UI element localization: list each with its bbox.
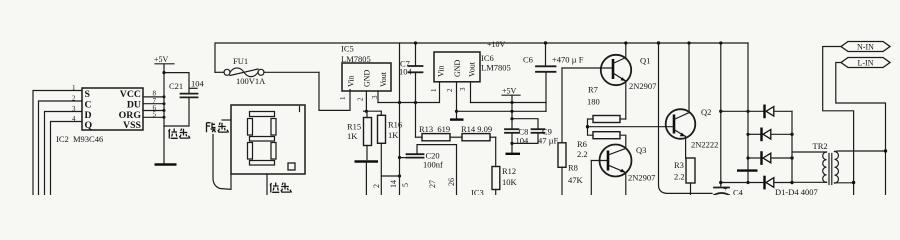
svg-text:+10V: +10V	[487, 40, 506, 49]
svg-text:26: 26	[447, 178, 456, 186]
svg-text:3: 3	[459, 87, 467, 91]
capacitor C7 104	[399, 41, 423, 137]
svg-text:GND: GND	[453, 59, 462, 77]
svg-text:LM7805: LM7805	[481, 63, 511, 73]
label +10V on rail	[487, 40, 506, 49]
svg-text:R3: R3	[674, 160, 684, 170]
wire IC5 GND pin2 down	[364, 91, 382, 113]
wire L-IN to transformer	[836, 63, 887, 196]
svg-text:C: C	[85, 100, 92, 111]
wire base rail to Q2	[586, 125, 674, 128]
svg-text:3: 3	[72, 105, 76, 113]
label duanxuan (segment select) left	[207, 123, 229, 133]
transistor Q3 2N2907	[591, 145, 655, 196]
label weixuan (bit select) under display	[270, 183, 292, 193]
regulator IC5 LM7805	[339, 44, 391, 102]
svg-text:C21: C21	[169, 81, 183, 91]
capacitor C8 104	[505, 103, 529, 153]
label weixuan (bit select) left	[169, 129, 191, 139]
svg-text:C4: C4	[733, 188, 744, 196]
wire C4 / Q2 collector column	[719, 41, 722, 186]
svg-text:Vout: Vout	[379, 71, 388, 87]
resistor R3 2.2	[674, 158, 695, 195]
svg-text:1: 1	[430, 88, 438, 92]
pin 26 label	[447, 178, 456, 186]
ground below bit-select line	[155, 163, 177, 165]
svg-text:R13 619: R13 619	[419, 124, 450, 134]
wire IC2 pin6 ORG stub	[143, 104, 166, 112]
capacitor C6 +470uF	[523, 41, 584, 111]
connector flag L-IN	[841, 58, 890, 68]
wire segment-select feed around display	[213, 135, 231, 190]
ground under IC6	[450, 118, 464, 120]
diode D2	[748, 128, 794, 142]
svg-text:IC5: IC5	[341, 44, 354, 54]
svg-text:R6: R6	[577, 139, 587, 149]
wire N-IN to transformer	[823, 47, 856, 196]
wire fuse to IC5 Vin pin1	[319, 72, 350, 110]
diode D1	[721, 105, 792, 119]
capacitor C20 100nf	[400, 145, 457, 195]
wire rail drop to bottom edge near C4	[657, 41, 712, 193]
wire bridge right column	[791, 111, 793, 182]
svg-text:2: 2	[372, 184, 381, 188]
svg-text:5: 5	[401, 183, 410, 187]
svg-text:4: 4	[72, 115, 76, 123]
resistor R12 10K	[492, 137, 518, 195]
wire rail2 C6 bottom to IC6 gnd node	[457, 110, 547, 112]
svg-text:2.2: 2.2	[577, 149, 588, 159]
connector flag N-IN	[841, 42, 890, 52]
svg-text:+5V: +5V	[502, 87, 517, 96]
resistor R14 9.09	[461, 124, 496, 141]
wire IC2 pin7 DU stub	[143, 97, 166, 105]
7-segment display module	[231, 105, 305, 174]
node +5V left rail	[154, 55, 174, 164]
pin 5 label	[401, 183, 410, 187]
svg-text:104: 104	[191, 79, 205, 89]
resistor R15 1K	[347, 111, 372, 159]
svg-text:2N2907: 2N2907	[629, 81, 656, 91]
svg-text:47 µF: 47 µF	[538, 136, 559, 146]
svg-text:IC2 M93C46: IC2 M93C46	[56, 134, 103, 144]
svg-text:1K: 1K	[388, 130, 399, 140]
diode D4	[721, 176, 794, 190]
capacitor C9 47uF	[512, 119, 559, 146]
svg-text:180: 180	[587, 97, 600, 107]
svg-text:L-IN: L-IN	[858, 59, 874, 68]
svg-text:VCC: VCC	[120, 89, 141, 100]
svg-text:Q2: Q2	[701, 107, 711, 117]
svg-text:+5V: +5V	[154, 55, 169, 64]
resistor R7 180	[587, 85, 626, 127]
wire display common pin down	[266, 174, 268, 195]
svg-text:Vout: Vout	[468, 61, 477, 77]
wire +10V top rail	[215, 43, 748, 72]
label D1-D4 4007	[775, 187, 818, 197]
IC3 label	[471, 188, 484, 198]
pin 2 label	[372, 184, 381, 188]
svg-text:1K: 1K	[347, 131, 358, 141]
capacitor C21	[164, 73, 205, 126]
wire IC2 pin4 Q to left bus	[51, 115, 83, 195]
svg-text:104: 104	[399, 67, 413, 77]
svg-text:2N2222: 2N2222	[691, 140, 718, 150]
transistor Q1 2N2907	[562, 41, 656, 119]
svg-text:2: 2	[357, 97, 365, 101]
svg-text:IC3: IC3	[471, 188, 484, 196]
IC2 M93C46 body	[82, 88, 143, 131]
svg-text:5: 5	[153, 111, 157, 119]
diode D3	[748, 151, 794, 165]
regulator IC6 LM7805	[430, 52, 511, 92]
svg-text:1: 1	[72, 84, 76, 92]
wire IC6 GND pin2 to ground	[455, 82, 458, 119]
resistor R8 47K	[558, 68, 584, 195]
svg-text:Q1: Q1	[640, 56, 650, 66]
IC2 reference label	[56, 134, 103, 144]
svg-text:R15: R15	[347, 122, 361, 132]
wire IC6 Vout pin3 +5V rail	[471, 82, 547, 104]
resistor R13 619	[416, 124, 463, 141]
svg-text:R12: R12	[502, 166, 516, 176]
svg-text:2.2: 2.2	[674, 172, 685, 182]
ground under R15	[355, 162, 379, 196]
svg-text:2: 2	[72, 95, 76, 103]
wire IC2 pin5 VSS stub	[143, 111, 166, 119]
svg-text:100V1A: 100V1A	[236, 76, 266, 86]
wire IC2 pin8 VCC stub	[143, 90, 166, 99]
pin 14 label	[389, 180, 398, 188]
svg-text:R8: R8	[568, 163, 578, 173]
svg-text:IC6: IC6	[481, 53, 494, 63]
wire segment-select stub into display	[222, 119, 231, 121]
svg-text:Vin: Vin	[347, 75, 356, 87]
resistor R16 1K	[378, 111, 403, 195]
svg-text:N-IN: N-IN	[857, 43, 874, 52]
svg-text:Q3: Q3	[636, 145, 646, 155]
svg-text:Q: Q	[85, 120, 93, 131]
svg-text:10K: 10K	[502, 177, 518, 187]
pin 27 label	[428, 180, 437, 188]
svg-text:100nf: 100nf	[423, 160, 443, 170]
wire IC2 pin2 C to left bus	[39, 95, 83, 196]
svg-text:S: S	[85, 89, 91, 100]
svg-text:+: +	[723, 185, 728, 194]
svg-text:+470 µ F: +470 µ F	[552, 55, 584, 65]
svg-text:27: 27	[428, 180, 437, 188]
svg-text:R7: R7	[588, 85, 598, 95]
svg-text:FU1: FU1	[233, 56, 248, 66]
svg-text:TR2: TR2	[813, 141, 828, 151]
svg-text:14: 14	[389, 180, 398, 188]
ground on bridge column	[737, 171, 758, 184]
label +5V mid	[502, 87, 520, 103]
fuse FU1 100V1A	[215, 56, 319, 86]
capacitor C4 (cut off at edge)	[714, 185, 744, 198]
svg-text:C6: C6	[523, 55, 533, 65]
svg-text:Vin: Vin	[437, 65, 446, 77]
transistor Q2 2N2222	[666, 41, 719, 158]
resistor R6 2.2	[577, 127, 626, 159]
svg-text:47K: 47K	[568, 175, 584, 185]
svg-text:R14 9.09: R14 9.09	[461, 124, 492, 134]
svg-text:DU: DU	[127, 100, 141, 111]
ground under C8	[506, 153, 521, 155]
wire rail end down into bridge	[746, 43, 749, 169]
svg-text:GND: GND	[363, 69, 372, 87]
svg-text:2N2907: 2N2907	[628, 173, 655, 183]
transformer TR2	[792, 141, 886, 185]
svg-text:2: 2	[446, 88, 454, 92]
svg-text:1: 1	[339, 96, 347, 100]
svg-text:D1-D4 4007: D1-D4 4007	[775, 187, 818, 195]
wire long drop node A	[398, 43, 401, 195]
svg-text:VSS: VSS	[123, 120, 142, 131]
wire IC2 pin1 S to left bus	[33, 84, 82, 195]
wire IC2 pin3 D to left bus	[45, 105, 83, 195]
wire R16 leg to node	[381, 174, 401, 177]
wire IC5 Vout pin3 rail to IC6 Vin	[378, 82, 440, 104]
